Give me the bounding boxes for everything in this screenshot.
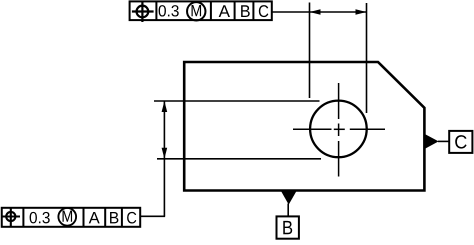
leader elbow from FCF2 to vertical dimension line [140, 215, 165, 217]
extension line at hole top tangent [154, 100, 320, 102]
datum reference letter B in FCF2 [110, 212, 118, 223]
top horizontal dimension line [310, 11, 367, 13]
right arrowhead of top dimension [356, 9, 367, 14]
extension line at hole bottom tangent [157, 158, 321, 160]
feature control frame FCF2 (bottom) box [2, 208, 140, 227]
vertical centerline of hole [338, 83, 340, 177]
datum reference letter A in FCF2 [89, 212, 100, 223]
leader from FCF1 to top dimension line [272, 11, 310, 13]
tolerance value 0.3 in FCF1 [159, 5, 179, 16]
datum feature triangle C (filled) on right edge [425, 134, 438, 148]
datum letter C [455, 135, 466, 148]
datum letter B [283, 221, 292, 234]
hole circle [310, 101, 367, 158]
leader from datum triangle B to its box [287, 204, 289, 217]
position tolerance symbol in FCF2 [2, 207, 20, 226]
upward arrowhead of left dimension [162, 101, 168, 112]
part outline with chamfered corner [184, 62, 424, 191]
left vertical dimension line continuing down to FCF2 leader [163, 101, 165, 216]
datum reference letter C in FCF1 [259, 5, 268, 17]
extension line at hole right tangent [366, 3, 368, 113]
datum C box [449, 131, 472, 153]
datum feature triangle B (filled) on bottom edge [281, 191, 297, 205]
datum reference letter C in FCF2 [127, 212, 136, 224]
position tolerance symbol in FCF1 [132, 2, 154, 23]
horizontal centerline of hole [293, 128, 385, 130]
datum reference letter A in FCF1 [219, 5, 230, 17]
tolerance value 0.3 in FCF2 [30, 212, 50, 223]
MMC modifier (M in circle) in FCF2 [58, 208, 76, 226]
feature control frame FCF1 (top) box [130, 1, 272, 20]
downward arrowhead of left dimension [162, 148, 168, 159]
left arrowhead of top dimension [310, 9, 321, 14]
datum reference letter B in FCF1 [241, 5, 250, 17]
leader from datum triangle C to its box [438, 140, 449, 142]
extension line at hole left tangent [309, 3, 311, 99]
datum B box [277, 216, 299, 238]
MMC modifier (M in circle) in FCF1 [187, 2, 205, 20]
